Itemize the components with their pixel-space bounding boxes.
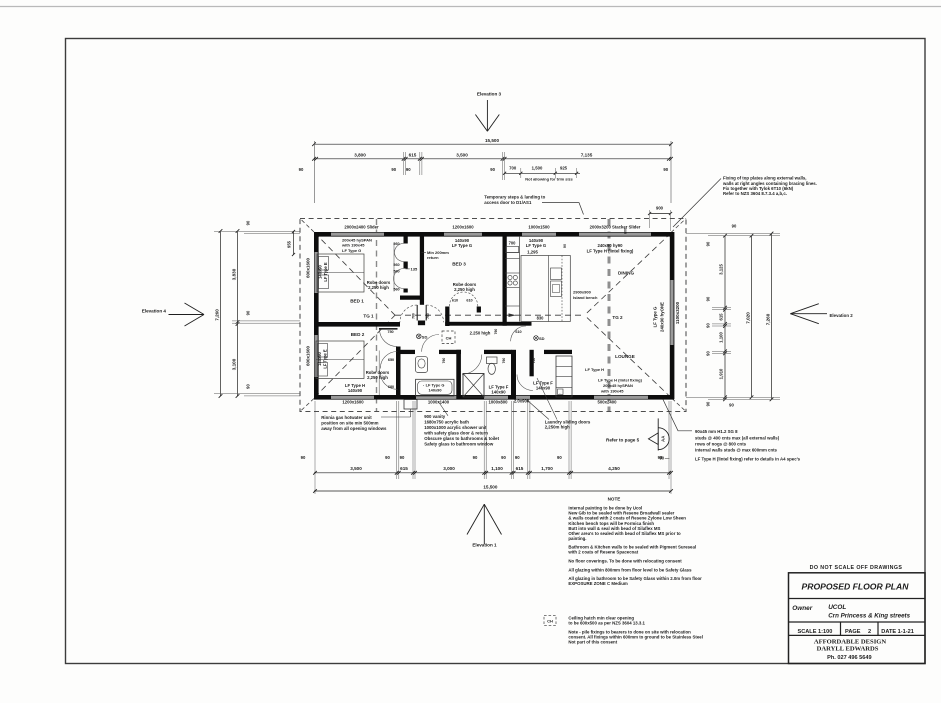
svg-text:All glazing within 800mm from: All glazing within 800mm from floor leve… [568, 567, 692, 572]
svg-text:90: 90 [501, 455, 506, 460]
svg-text:SD: SD [422, 334, 428, 339]
svg-text:DATE 1-1-21: DATE 1-1-21 [881, 629, 914, 635]
svg-text:750: 750 [387, 330, 393, 334]
svg-text:1200x1600: 1200x1600 [342, 400, 364, 405]
svg-text:2,250 high: 2,250 high [454, 287, 475, 292]
svg-text:90: 90 [515, 455, 520, 460]
svg-text:1,295: 1,295 [527, 249, 538, 254]
robe labels bed1 [367, 280, 391, 290]
owner row [792, 604, 910, 619]
svg-text:TG 1: TG 1 [363, 313, 374, 318]
svg-text:90: 90 [490, 167, 495, 172]
svg-text:studs @ 400 cnts max (all exte: studs @ 400 cnts max (all external walls… [695, 435, 780, 440]
svg-text:90: 90 [659, 456, 664, 461]
svg-text:90: 90 [246, 220, 251, 225]
svg-text:DARYLL EDWARDS: DARYLL EDWARDS [817, 645, 879, 652]
designer info [814, 639, 887, 662]
robe bed3 side stubs [445, 307, 481, 327]
wall hall north H2 [445, 322, 531, 326]
svg-text:LF Type H (lintel fixing): LF Type H (lintel fixing) [587, 248, 634, 253]
svg-text:to be 600x500 as per NZS 3604: to be 600x500 as per NZS 3604 13.3.1 [568, 621, 645, 626]
svg-text:LF Type E: LF Type E [323, 262, 328, 282]
svg-text:760: 760 [502, 358, 506, 364]
svg-text:1,100: 1,100 [719, 332, 724, 343]
window 1000x1500 top [522, 233, 556, 236]
svg-text:90: 90 [729, 403, 734, 408]
robe labels bed3 [453, 282, 477, 292]
svg-text:760: 760 [426, 313, 430, 319]
vanity bath shower note [423, 401, 499, 446]
bottom dimension line overall 15500 [313, 485, 673, 493]
svg-text:PAGE: PAGE [845, 629, 861, 635]
svg-text:600: 600 [624, 228, 628, 234]
robe doors bed3 bifold arcs [449, 292, 477, 306]
svg-text:7,135: 7,135 [581, 152, 593, 157]
svg-text:925: 925 [560, 165, 568, 170]
wall bath-shower V4 [456, 350, 461, 399]
svg-text:2000x3200 Stacker Slider: 2000x3200 Stacker Slider [590, 225, 641, 230]
svg-text:135: 135 [411, 266, 418, 271]
svg-text:240x90 hyONE: 240x90 hyONE [660, 302, 665, 332]
svg-text:UCOL: UCOL [828, 604, 846, 611]
exterior wall right [670, 232, 675, 399]
svg-text:760: 760 [532, 358, 536, 364]
robe doors bed2 arcs [379, 351, 397, 396]
svg-text:Crn Princess & King streets: Crn Princess & King streets [828, 613, 910, 620]
exterior wall top [314, 232, 674, 237]
svg-text:LF Type G: LF Type G [452, 243, 473, 248]
svg-text:760: 760 [412, 313, 416, 319]
lintel label kitchen window [526, 238, 567, 255]
svg-text:240x90 hy90: 240x90 hy90 [597, 243, 623, 248]
svg-text:2,250 high: 2,250 high [368, 285, 389, 290]
svg-text:with safety glass door & retur: with safety glass door & return [423, 430, 488, 435]
svg-text:CH: CH [547, 619, 553, 624]
right dimension line 7260 [766, 232, 774, 402]
svg-text:with 190x45: with 190x45 [600, 388, 624, 393]
truss girder TG2 line [608, 219, 611, 411]
svg-text:560: 560 [393, 242, 399, 246]
svg-text:90: 90 [400, 455, 405, 460]
window 1000x1400 bottom [416, 396, 458, 399]
svg-text:3,125: 3,125 [719, 264, 724, 275]
svg-text:Refer to page 5: Refer to page 5 [606, 438, 640, 443]
pile fixings note [568, 629, 703, 644]
wall hall south H4 segments [396, 350, 572, 354]
min 200 return note [422, 250, 450, 260]
window 1100x3200 right [670, 280, 673, 345]
svg-text:90: 90 [391, 167, 396, 172]
svg-text:140x90: 140x90 [491, 389, 506, 394]
svg-text:900: 900 [656, 206, 664, 211]
wall robe bed1 V1 [400, 236, 420, 300]
svg-text:2.250 high: 2.250 high [470, 330, 491, 335]
window 1000x800 bottom [484, 396, 508, 399]
svg-text:700: 700 [509, 241, 517, 246]
kitchen bench and appliances [505, 236, 520, 322]
svg-text:560: 560 [393, 288, 399, 292]
island bench [521, 256, 570, 322]
ceiling centre dashed line with arrow [395, 313, 585, 317]
svg-text:SCALE 1:100: SCALE 1:100 [798, 629, 833, 635]
svg-text:Temporary steps & landing to: Temporary steps & landing to [484, 195, 545, 200]
lintel label laundry window [533, 380, 553, 390]
wall bed3 west V2 [418, 236, 425, 325]
svg-text:3,000: 3,000 [443, 466, 455, 471]
wall bed3-kitchen V3 [503, 236, 507, 326]
title block box [789, 573, 926, 664]
svg-text:1,500: 1,500 [532, 165, 543, 170]
svg-text:610: 610 [515, 330, 521, 334]
svg-text:90: 90 [246, 384, 251, 389]
svg-text:TG 2: TG 2 [612, 315, 623, 320]
svg-text:internal walls studs @ max 600: internal walls studs @ max 600mm cnts [695, 447, 778, 452]
svg-text:3,100: 3,100 [232, 358, 237, 370]
svg-text:SD: SD [539, 336, 545, 341]
svg-text:90: 90 [563, 244, 567, 248]
bottom dimension chain 3500/615/3000/1100/615/1700/4250 [313, 466, 673, 474]
svg-text:90: 90 [473, 455, 478, 460]
window 500x2400 bottom [594, 396, 648, 399]
smoke detector hall [417, 334, 428, 339]
svg-text:760: 760 [494, 329, 498, 335]
svg-text:LOUNGE: LOUNGE [615, 354, 635, 359]
bed 2 symbol [316, 341, 364, 379]
svg-text:90: 90 [706, 296, 711, 301]
svg-text:AA: AA [660, 436, 665, 442]
scale page date row [798, 629, 914, 635]
lintel label bed1 top [341, 238, 372, 253]
svg-text:NOTE: NOTE [608, 497, 621, 502]
svg-text:615: 615 [516, 466, 524, 471]
window 600x1600 left lower [315, 335, 318, 377]
svg-text:7,260: 7,260 [766, 313, 771, 325]
smoke detector kitchen hall [534, 336, 545, 341]
svg-text:90: 90 [732, 224, 737, 229]
svg-text:access door to D1/AS1: access door to D1/AS1 [484, 200, 532, 205]
window label right rotated [653, 301, 681, 332]
window 2000x2400 slider top [331, 233, 384, 236]
svg-text:1680x750 acrylic bath: 1680x750 acrylic bath [424, 420, 469, 425]
svg-text:650: 650 [388, 358, 394, 362]
svg-text:1000x800: 1000x800 [489, 400, 509, 405]
door laundry arc [517, 358, 536, 391]
top dimension chain 3800/615/3500/7135 [299, 152, 673, 180]
svg-text:610: 610 [466, 299, 472, 303]
svg-text:LF Type H: LF Type H [345, 383, 365, 388]
roof hip lines [300, 219, 686, 412]
svg-text:3,500: 3,500 [456, 152, 468, 157]
truss girder TG1 line [376, 219, 378, 411]
svg-text:140x90: 140x90 [348, 388, 363, 393]
svg-text:LF Type H (lintel fixing): LF Type H (lintel fixing) [598, 377, 643, 382]
svg-text:2.0x900: 2.0x900 [514, 399, 530, 404]
svg-text:with 2 coats of Resene Spaceco: with 2 coats of Resene Spacecoat [567, 549, 638, 554]
svg-text:615: 615 [409, 152, 417, 157]
svg-text:Island bench: Island bench [573, 295, 598, 300]
left dimension line 7260 [215, 229, 223, 398]
955 dimension left [287, 230, 296, 256]
wall laundry V5b [530, 350, 534, 377]
elevation 4 marker [142, 303, 204, 326]
lintel label stacker slider [587, 228, 634, 253]
svg-text:615: 615 [400, 466, 408, 471]
lintel label toilet window [489, 384, 509, 394]
svg-text:2,250 high: 2,250 high [367, 375, 388, 380]
svg-text:3,830: 3,830 [232, 268, 237, 280]
svg-text:7,020: 7,020 [746, 312, 751, 324]
lintel label bed3 top [452, 238, 473, 248]
svg-text:2000x2400 Slider: 2000x2400 Slider [344, 225, 379, 230]
svg-text:1200x1600: 1200x1600 [452, 225, 474, 230]
svg-text:3,500: 3,500 [350, 466, 362, 471]
shower [463, 374, 484, 398]
svg-text:painting.: painting. [568, 536, 586, 541]
window labels left rotated [306, 257, 311, 366]
door bed2 leaf and arc [379, 329, 398, 347]
svg-text:140x90: 140x90 [536, 385, 551, 390]
exterior wall left [314, 232, 319, 399]
svg-text:600x1600: 600x1600 [306, 345, 311, 366]
svg-text:140x90: 140x90 [317, 351, 322, 365]
svg-text:1,100: 1,100 [491, 466, 503, 471]
svg-text:away from all opening windows: away from all opening windows [321, 426, 387, 431]
svg-text:Robe doors: Robe doors [366, 370, 390, 375]
svg-text:Elevation 3: Elevation 3 [477, 92, 502, 97]
door toilet room arc [462, 329, 506, 375]
svg-text:90: 90 [706, 351, 711, 356]
svg-text:1,700: 1,700 [541, 466, 553, 471]
door kitchen-hall arc [511, 326, 526, 341]
svg-text:Not part of this consent: Not part of this consent [568, 640, 617, 645]
window 600x1600 left upper [315, 252, 318, 293]
svg-text:DINING: DINING [618, 271, 635, 276]
svg-text:LF Type H (lintel fixing) refe: LF Type H (lintel fixing) refer to detai… [695, 456, 801, 461]
top sub-dimension 700/1500/925 [503, 165, 580, 181]
wall toilet-laundry V5a [511, 350, 516, 399]
svg-text:90: 90 [385, 455, 390, 460]
svg-text:LF Type G: LF Type G [342, 248, 361, 253]
vanity [416, 357, 428, 373]
svg-text:Owner: Owner [792, 605, 812, 612]
svg-text:Elevation 2: Elevation 2 [830, 313, 854, 318]
bath [416, 379, 454, 396]
svg-text:LF Type G: LF Type G [653, 306, 658, 327]
bed 1 symbol [317, 254, 364, 292]
door bed3 leaf and arc [426, 305, 443, 322]
lounge lintel labels [585, 367, 643, 394]
roof outline dashed [300, 219, 686, 412]
robe doors bed1 arcs [393, 242, 418, 292]
svg-text:BED 1: BED 1 [350, 299, 364, 304]
window lintel rotated labels bed1 bed2 [317, 262, 328, 369]
svg-text:90: 90 [406, 167, 411, 172]
svg-text:90: 90 [299, 167, 304, 172]
svg-text:700: 700 [509, 165, 517, 170]
scan artifact line top [0, 6, 941, 8]
svg-text:CH: CH [446, 336, 452, 341]
svg-text:760: 760 [442, 358, 446, 364]
svg-text:830: 830 [537, 316, 545, 321]
hot water unit box [381, 400, 417, 418]
svg-text:Not allowing for trim size: Not allowing for trim size [525, 177, 573, 182]
window labels top [344, 225, 640, 230]
svg-text:BED 3: BED 3 [452, 262, 466, 267]
door 2.0x900 laundry slider bottom [511, 396, 530, 399]
svg-text:1100x3200: 1100x3200 [675, 301, 680, 324]
svg-text:610: 610 [452, 299, 458, 303]
svg-text:500x2400: 500x2400 [598, 399, 618, 404]
svg-text:90x45 mm H1.2 SG 8: 90x45 mm H1.2 SG 8 [695, 429, 738, 434]
elevation 2 marker [790, 304, 853, 324]
room labels [350, 262, 635, 360]
svg-text:90: 90 [706, 323, 711, 328]
svg-text:Obscure glass to bathrooms & t: Obscure glass to bathrooms & toilet [424, 436, 499, 441]
svg-text:Ph. 027 496 5649: Ph. 027 496 5649 [827, 655, 871, 661]
toilet [487, 357, 498, 374]
laundry sliding doors note [527, 378, 591, 430]
svg-text:LF Type G: LF Type G [526, 243, 547, 248]
svg-text:90: 90 [663, 167, 668, 172]
section marker AA refer to page 5 [606, 418, 670, 460]
svg-text:140x90: 140x90 [318, 264, 323, 278]
fixing of top plates note [673, 176, 817, 227]
svg-text:rows of nogs @ 800 cnts: rows of nogs @ 800 cnts [695, 441, 747, 446]
900 eave dimension top right [648, 206, 672, 232]
window labels bottom [342, 399, 617, 405]
svg-text:15,500: 15,500 [485, 138, 499, 143]
window 1200x1600 top [444, 233, 482, 236]
ceiling hatch note [544, 615, 646, 625]
note block [567, 497, 702, 587]
svg-text:Elevation 4: Elevation 4 [142, 309, 167, 314]
bottom extension lines and 90 labels [301, 401, 671, 494]
svg-text:2900x900: 2900x900 [573, 290, 592, 295]
svg-text:Rinnia gas hotwater unit: Rinnia gas hotwater unit [321, 415, 372, 420]
svg-text:2: 2 [868, 629, 871, 635]
studs note bottom right [663, 400, 801, 462]
svg-text:90: 90 [706, 401, 711, 406]
wall bed1-bed2 divider H1 [314, 322, 400, 327]
svg-text:955: 955 [287, 240, 292, 248]
right extension lines [686, 224, 780, 408]
svg-text:4,250: 4,250 [608, 466, 620, 471]
svg-text:return: return [427, 255, 439, 260]
exterior wall bottom [314, 395, 674, 400]
svg-text:DO NOT SCALE OFF DRAWINGS: DO NOT SCALE OFF DRAWINGS [810, 565, 903, 571]
svg-text:90: 90 [301, 455, 306, 460]
ceiling diagonal dashed lines [315, 233, 672, 398]
svg-text:LF Type H: LF Type H [585, 367, 604, 372]
svg-text:.: . [560, 390, 561, 394]
door hall west leaf and arc [400, 305, 417, 322]
rinnai hot water note [321, 415, 387, 431]
island bench label [573, 290, 598, 301]
svg-text:1000x1000 acrylic shower unit: 1000x1000 acrylic shower unit [424, 425, 487, 430]
svg-text:560: 560 [393, 263, 399, 267]
ceiling hatch symbol hall [442, 331, 455, 344]
robe labels bed2 [366, 370, 390, 380]
svg-text:Robe doors: Robe doors [453, 282, 477, 287]
svg-text:EXPOSURE ZONE C Medium: EXPOSURE ZONE C Medium [568, 581, 628, 586]
svg-text:615: 615 [719, 313, 724, 321]
window 2000x3200 stacker slider top [579, 233, 651, 236]
elevation 1 marker [467, 504, 502, 547]
svg-text:No floor coverings. To be done: No floor coverings. To be done with relo… [568, 558, 682, 563]
svg-text:BED 2: BED 2 [351, 332, 365, 337]
right dimension line 7020 [746, 234, 754, 399]
left dimension chain 3830/3100 [214, 220, 300, 398]
svg-text:140x90: 140x90 [429, 387, 442, 392]
temporary steps note [484, 195, 583, 215]
svg-text:Refer to NZS 3604 8.7.3.4 a,b,: Refer to NZS 3604 8.7.3.4 a,b,c. [723, 191, 787, 196]
svg-text:position on site min 500mm: position on site min 500mm [321, 421, 378, 426]
window 1200x1600 bottom [331, 396, 374, 399]
svg-text:LF Type E: LF Type E [322, 349, 327, 369]
svg-text:680: 680 [388, 385, 394, 389]
svg-text:15,500: 15,500 [483, 485, 497, 490]
svg-text:1000x1500: 1000x1500 [528, 225, 550, 230]
laundry cabinet [556, 356, 572, 397]
svg-text:900 vanity: 900 vanity [424, 414, 446, 419]
svg-text:PROPOSED FLOOR PLAN: PROPOSED FLOOR PLAN [802, 582, 910, 592]
svg-text:2,250m high: 2,250m high [545, 425, 570, 430]
right dimension chain 3125/615/1100/1910 [706, 234, 732, 407]
wall bed2 east V6 [396, 347, 401, 400]
svg-text:200x45 hySPAN: 200x45 hySPAN [603, 383, 633, 388]
svg-text:Robe doors: Robe doors [367, 280, 391, 285]
svg-text:90: 90 [706, 241, 711, 246]
svg-text:7,260: 7,260 [215, 309, 220, 321]
svg-text:1,910: 1,910 [719, 368, 724, 379]
elevation 3 marker [475, 92, 501, 132]
lintel label bed2 bottom [345, 383, 365, 393]
svg-text:3,800: 3,800 [354, 152, 366, 157]
door bathroom arc [422, 335, 446, 364]
svg-text:600x1600: 600x1600 [306, 257, 311, 278]
top dimension line overall 15500 [312, 138, 673, 203]
svg-text:Safety glass to bathroom windo: Safety glass to bathroom window [424, 441, 494, 446]
svg-text:90: 90 [557, 455, 562, 460]
svg-text:90: 90 [246, 310, 251, 315]
svg-text:560: 560 [393, 270, 399, 274]
